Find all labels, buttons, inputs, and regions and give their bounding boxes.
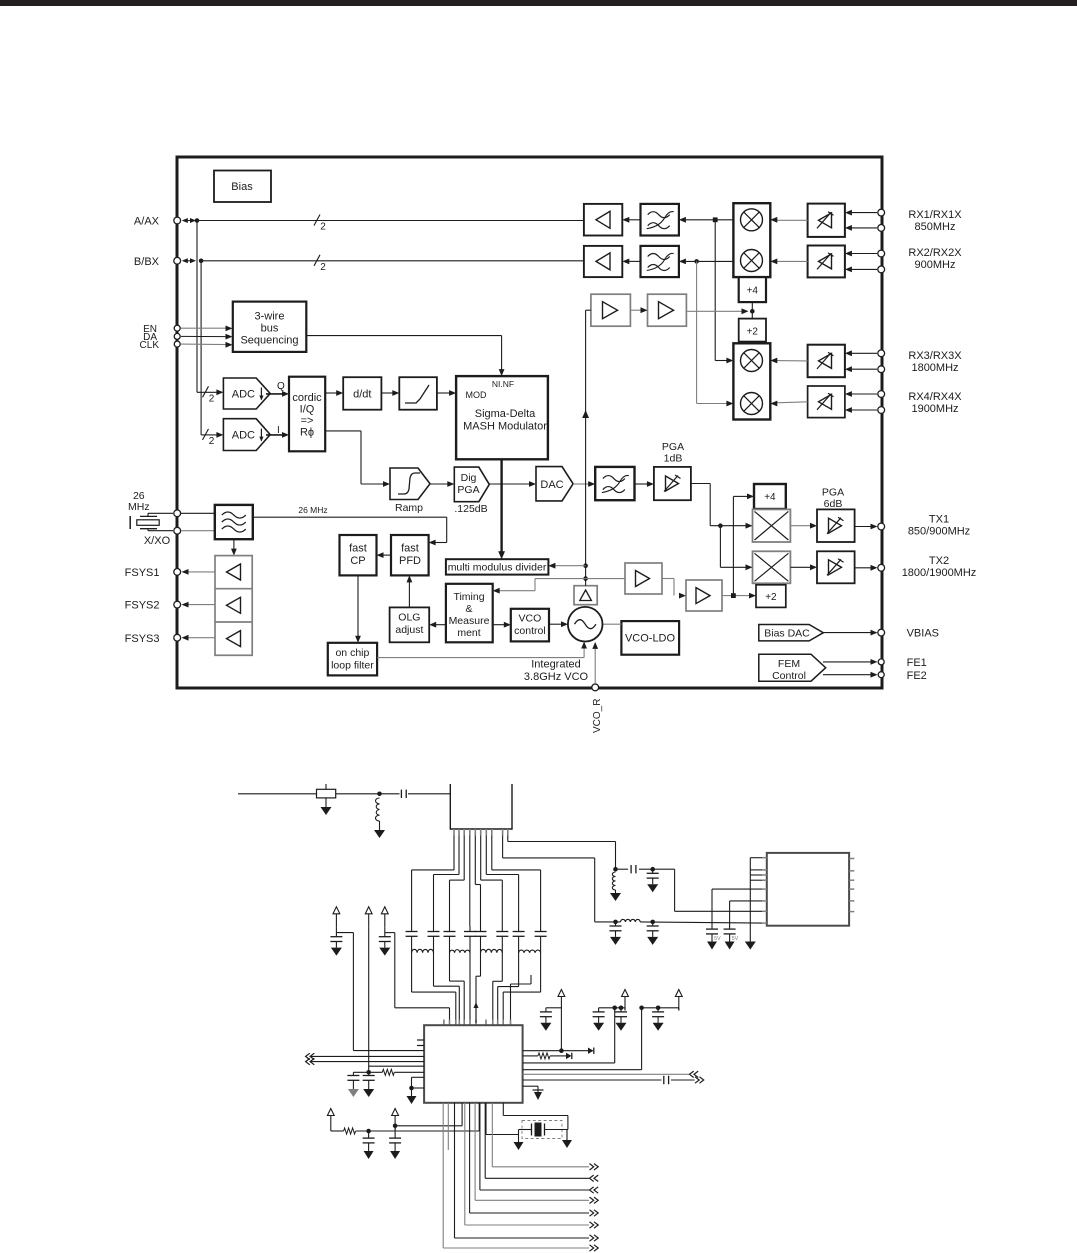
wire FSYS2	[182, 602, 216, 608]
pad B/BX	[134, 256, 181, 268]
label integrated VCO	[524, 659, 589, 684]
wire IC left rx2	[306, 1058, 425, 1064]
block limiter	[399, 377, 437, 410]
ADC I (B path)	[223, 419, 279, 451]
pad FE1	[878, 657, 927, 669]
wire digpga-dac	[489, 481, 536, 487]
pads RX2	[878, 250, 885, 273]
block ref filter	[215, 505, 253, 539]
block Dig PGA	[454, 467, 489, 515]
svg-text:=>: =>	[301, 415, 314, 427]
wire xtal feed	[503, 1103, 568, 1130]
svg-text:RX3/RX3X: RX3/RX3X	[908, 350, 962, 362]
capacitor series C1	[401, 790, 406, 798]
block RF module	[767, 853, 849, 926]
wire limiter-modulator	[437, 390, 456, 396]
wire digital io 3	[480, 1103, 598, 1193]
wire vco dist vertical	[582, 310, 591, 586]
supply B1	[327, 1109, 334, 1132]
wire cordic-d/dt	[325, 390, 343, 396]
wire module-IC link	[511, 975, 532, 1020]
svg-text:FSYS1: FSYS1	[125, 567, 160, 579]
block cordic	[289, 377, 325, 452]
wire vcoctl-vco	[549, 621, 568, 627]
RX filter B	[641, 246, 679, 277]
svg-text:fast: fast	[401, 543, 419, 555]
block Ramp	[390, 468, 430, 514]
ADC Q (A path)	[223, 378, 285, 409]
wire IC right 4	[523, 1008, 642, 1070]
wire lpf-pga	[635, 481, 654, 487]
wire txbuf1-txbuf2	[662, 579, 686, 599]
wire txmix1-pga	[790, 523, 817, 529]
svg-text:3-wire: 3-wire	[255, 311, 285, 323]
wire IC left in3	[369, 1065, 424, 1067]
LNA RX4	[808, 386, 845, 418]
wire digital io 5	[470, 1103, 599, 1216]
svg-text:FSYS3: FSYS3	[125, 633, 160, 645]
svg-text:FE2: FE2	[907, 670, 927, 682]
label RX2	[908, 247, 962, 271]
inductor match L1	[374, 798, 385, 838]
block div2 RX	[739, 319, 766, 342]
wire mixA-filterA	[679, 217, 734, 223]
svg-text:PGA: PGA	[822, 487, 844, 499]
wire filterA-ampA	[622, 217, 640, 223]
svg-text:VCO_R: VCO_R	[592, 699, 603, 733]
svg-text:Ramp: Ramp	[395, 502, 423, 514]
label RX1	[908, 209, 962, 233]
svg-text:1800MHz: 1800MHz	[911, 362, 958, 374]
wire buf2-divnode	[686, 308, 748, 314]
block fast PFD	[391, 535, 429, 575]
svg-text:VCO-LDO: VCO-LDO	[625, 633, 676, 645]
wire IC left res line	[353, 1069, 424, 1075]
pads RX1	[878, 209, 885, 231]
LNA RX2	[808, 246, 845, 278]
wire LNA1 out	[770, 217, 807, 223]
inductors RX match row	[412, 948, 541, 958]
pad DA	[143, 332, 180, 343]
FSYS buffer stack	[215, 556, 252, 656]
wire tap divider	[548, 563, 585, 569]
wire IC right 2	[523, 1053, 572, 1059]
wire 26MHz to PFD	[253, 505, 447, 545]
wire digital io 6	[465, 1103, 598, 1228]
wire digital io 1	[492, 1103, 598, 1170]
svg-text:5V: 5V	[732, 936, 739, 942]
cap b1	[363, 1131, 375, 1159]
pad FSYS3	[125, 633, 181, 645]
svg-text:PGA: PGA	[457, 484, 479, 496]
wire fem-fe1	[823, 659, 878, 665]
IC top pin stubs	[444, 1020, 511, 1026]
svg-text:Rϕ: Rϕ	[300, 427, 314, 439]
svg-text:B/BX: B/BX	[134, 256, 160, 268]
wire digital io 4	[475, 1103, 598, 1204]
svg-text:6dB: 6dB	[824, 498, 843, 510]
wire A to ADC1	[197, 221, 223, 405]
block d/dt	[343, 377, 381, 410]
svg-text:DAC: DAC	[540, 479, 563, 491]
wire LNA3 out	[770, 358, 807, 364]
supply rail 1	[540, 990, 565, 1051]
wire supply3 branch	[379, 933, 450, 1020]
block PGA 1dB	[654, 441, 691, 500]
pad CLK	[140, 340, 181, 351]
svg-text:bus: bus	[261, 323, 279, 335]
svg-text:2: 2	[320, 262, 326, 273]
wire IC left gnd loop	[407, 1077, 425, 1104]
wire IC right rx out	[523, 1071, 699, 1077]
wires front-end fanout	[412, 836, 541, 927]
wire RX1 inputs	[845, 210, 877, 231]
wire filterB-ampB	[622, 259, 640, 265]
wire OLG-PFD	[407, 575, 413, 607]
svg-text:MOD: MOD	[466, 390, 487, 400]
VCO oscillator	[568, 607, 603, 642]
svg-text:26 MHz: 26 MHz	[298, 505, 327, 515]
wire timing-OLG	[429, 622, 446, 628]
svg-text:TX1: TX1	[929, 514, 949, 526]
pads RX3	[878, 350, 885, 373]
block FEM Control	[759, 654, 826, 682]
svg-text:1900MHz: 1900MHz	[911, 403, 958, 415]
svg-text:2: 2	[209, 436, 215, 447]
wire IC left supply	[353, 1050, 424, 1052]
wire IC right tx out	[523, 1076, 704, 1084]
svg-text:FEM: FEM	[778, 658, 800, 670]
block OLG adjust	[390, 607, 430, 642]
TX mixer 2	[753, 551, 791, 583]
wire CP-loopfilter	[355, 575, 361, 642]
supply V2	[365, 907, 372, 1073]
wire RX3 IF join	[715, 220, 733, 364]
RX mixer block low band	[733, 343, 770, 419]
block div4 TX	[754, 484, 786, 509]
wire RX4 inputs	[845, 391, 877, 413]
svg-text:Q: Q	[277, 381, 285, 392]
wire LNA2 out	[770, 259, 807, 265]
LNA RX3	[808, 345, 845, 378]
block Timing Measurement	[446, 584, 493, 643]
wire d/dt-limiter	[381, 390, 399, 396]
svg-text:2: 2	[320, 222, 326, 233]
pad FSYS2	[125, 600, 181, 612]
svg-text:adjust: adjust	[395, 624, 423, 636]
wire tap timing	[493, 579, 586, 594]
wire txbuf2-dividers	[722, 494, 756, 599]
block VCO-LDO	[621, 621, 679, 655]
svg-text:PGA: PGA	[662, 441, 684, 453]
svg-text:MASH Modulator: MASH Modulator	[463, 421, 547, 433]
TX PGA 6dB hi	[817, 487, 855, 543]
wire module en1	[706, 889, 762, 949]
svg-text:Bias DAC: Bias DAC	[764, 628, 810, 640]
label RX3	[908, 350, 962, 374]
wire tap txbuf	[586, 578, 625, 580]
svg-text:I/Q: I/Q	[300, 404, 315, 416]
ground esd	[321, 798, 332, 815]
svg-text:on chip: on chip	[335, 647, 369, 659]
svg-text:+4: +4	[764, 492, 776, 503]
RX filter A	[641, 204, 679, 236]
svg-text:.125dB: .125dB	[454, 503, 487, 515]
LNA RX1	[808, 204, 845, 237]
wire ADC2-cordic	[266, 432, 289, 438]
wire bsupply2	[393, 1103, 462, 1128]
wire digital io 7	[455, 1103, 599, 1241]
wire dac-lpf	[573, 481, 595, 487]
wire supply1 branch	[330, 933, 353, 1051]
svg-text:Measure: Measure	[449, 615, 490, 627]
label 26MHz	[128, 490, 150, 513]
wire IC right 3	[523, 1008, 615, 1063]
top black header bar	[0, 0, 1077, 6]
svg-text:ADC: ADC	[232, 430, 255, 442]
block TX LPF	[595, 467, 634, 500]
wire module ctrl bus	[745, 858, 762, 950]
svg-text:loop filter: loop filter	[331, 660, 374, 672]
wire cordic-ramp	[325, 431, 390, 487]
wire io stub	[447, 1103, 449, 1150]
capacitor series moduleA	[616, 865, 653, 873]
wire modulator-divider	[498, 459, 505, 559]
TX LO buffer 2	[686, 580, 722, 611]
wire txmix2-pga	[790, 564, 817, 570]
gnd xtal left	[514, 1135, 524, 1151]
pad A/AX	[134, 216, 181, 228]
block VCO control	[511, 609, 549, 642]
wire digital io 2	[485, 1103, 598, 1182]
wire timing-vcoctl	[493, 622, 511, 628]
wire digital io 8	[443, 1103, 598, 1251]
svg-text:Integrated: Integrated	[531, 659, 581, 671]
wire TX1 out	[855, 524, 878, 530]
svg-text:1dB: 1dB	[664, 453, 683, 465]
svg-text:2: 2	[209, 393, 215, 404]
svg-text:850MHz: 850MHz	[915, 221, 956, 233]
wire bsupply1	[331, 1103, 479, 1134]
wire A/AX bidir	[182, 215, 584, 233]
pad XTAL1	[174, 510, 181, 517]
svg-text:OLG: OLG	[398, 612, 420, 624]
block 3-wire bus Sequencing	[233, 302, 306, 352]
wire buf1-buf2	[630, 307, 647, 313]
cap IC left	[347, 1072, 359, 1097]
wire fem-fe2	[823, 672, 878, 678]
svg-text:VBIAS: VBIAS	[907, 628, 939, 640]
front-end module pins	[454, 829, 508, 836]
svg-text:d/dt: d/dt	[353, 389, 371, 401]
gnd IC right	[523, 1086, 544, 1100]
block Bias	[214, 171, 271, 203]
cap b2	[389, 1126, 401, 1159]
wire FSYS3	[182, 635, 216, 641]
RX LO buffer 2	[648, 294, 687, 326]
wire ramp-digpga	[430, 481, 454, 487]
RX amp B	[584, 246, 622, 277]
wire antenna line	[238, 792, 450, 797]
capacitors RX match row	[406, 926, 547, 948]
TX LO buffer 1	[625, 563, 662, 594]
wire IC left rx1	[306, 1053, 425, 1059]
wire module vcc line	[595, 919, 762, 924]
block DAC	[536, 467, 573, 501]
svg-text:PFD: PFD	[399, 555, 421, 567]
IC left stub pins	[417, 1040, 424, 1046]
wire EN	[181, 326, 233, 332]
wire IC right 1	[523, 1048, 594, 1054]
svg-text:Control: Control	[772, 670, 806, 682]
pad TX1	[878, 514, 970, 538]
wire CLK	[181, 342, 233, 348]
wire node to module pin	[653, 869, 762, 911]
block front-end module	[450, 784, 512, 829]
module right pins	[849, 859, 854, 912]
cap vcc 2	[647, 922, 659, 945]
pad VBIAS	[878, 628, 939, 640]
wire RX4 IF join	[697, 261, 734, 406]
svg-text:X/XO: X/XO	[144, 535, 171, 547]
block fast CP	[340, 535, 377, 575]
block Sigma-Delta MASH Modulator	[456, 376, 548, 459]
svg-text:Dig: Dig	[461, 472, 477, 484]
svg-text:&: &	[465, 603, 472, 615]
svg-text:5V: 5V	[714, 936, 721, 942]
label RX4	[908, 391, 962, 415]
wire B to ADC2	[201, 261, 223, 447]
supply rail 3	[639, 990, 682, 1031]
pad XTAL2	[174, 527, 181, 534]
supply V3	[381, 907, 388, 933]
wire fe pin9 to module feed	[503, 836, 595, 922]
wire xtal1-filter	[181, 512, 215, 514]
svg-text:TX2: TX2	[929, 555, 949, 567]
svg-text:multi modulus divider: multi modulus divider	[448, 562, 547, 574]
wire ADC1-cordic	[266, 391, 289, 397]
pad VCO_R	[592, 684, 603, 733]
svg-text:ment: ment	[457, 627, 480, 639]
module left pins	[762, 858, 767, 923]
pads RX4	[878, 391, 885, 414]
wire PFD-CP	[377, 552, 392, 558]
svg-text:Timing: Timing	[453, 591, 484, 603]
RX amp A	[584, 204, 622, 236]
svg-text:3.8GHz VCO: 3.8GHz VCO	[524, 671, 589, 683]
wire DA	[181, 334, 233, 340]
block Bias DAC	[759, 625, 824, 641]
svg-text:Sigma-Delta: Sigma-Delta	[475, 408, 536, 420]
wire B/BX bidir	[182, 255, 584, 273]
cap IC left2	[363, 1072, 375, 1097]
block delta modulator	[574, 586, 597, 605]
chip outline box	[177, 157, 882, 688]
TX PGA 6dB lo	[817, 551, 855, 583]
block div4 RX	[739, 277, 766, 302]
wires match to IC	[412, 958, 541, 1020]
component esd filter	[317, 784, 336, 798]
svg-text:control: control	[514, 625, 546, 637]
RX mixer block high band	[733, 203, 770, 277]
pad TX2	[878, 555, 977, 579]
wire to module node A	[610, 867, 621, 901]
svg-text:1800/1900MHz: 1800/1900MHz	[902, 567, 977, 579]
wire module en2	[724, 901, 762, 950]
wire xtal2-filter	[181, 530, 215, 532]
wire VCOR-vco	[592, 642, 598, 684]
wire RX2 inputs	[845, 251, 877, 273]
svg-text:RX4/RX4X: RX4/RX4X	[908, 391, 962, 403]
svg-text:Sequencing: Sequencing	[240, 335, 298, 347]
pad FSYS1	[125, 567, 181, 579]
wire TX2 out	[855, 565, 878, 571]
svg-text:fast: fast	[349, 543, 367, 555]
svg-text:850/900MHz: 850/900MHz	[908, 526, 970, 538]
block div2 TX	[756, 585, 786, 608]
cap vcc 1	[610, 922, 622, 945]
svg-text:VCO: VCO	[519, 613, 542, 625]
svg-text:CP: CP	[350, 555, 365, 567]
svg-text:A/AX: A/AX	[134, 216, 160, 228]
wire 3wire to modulator	[306, 336, 504, 377]
svg-text:+4: +4	[747, 286, 759, 297]
svg-text:Bias: Bias	[231, 181, 253, 193]
wire RX3 inputs	[845, 350, 877, 372]
svg-text:RX1/RX1X: RX1/RX1X	[908, 209, 962, 221]
supply V1	[333, 907, 340, 933]
svg-text:+2: +2	[747, 327, 759, 338]
label X/XO	[144, 535, 171, 547]
crystal 26MHz	[130, 513, 173, 530]
wire filter-fsysbufs	[231, 539, 237, 555]
supply B2	[392, 1109, 399, 1130]
wire fe pin10 to filter node	[508, 836, 616, 870]
block multi modulus divider	[446, 559, 549, 574]
pad EN	[143, 324, 180, 335]
wire mixB-filterB	[679, 259, 734, 265]
svg-text:NI.NF: NI.NF	[492, 379, 514, 389]
crystal Y1	[522, 1121, 568, 1139]
block on chip loop filter	[328, 643, 377, 676]
TX mixer 1	[753, 509, 791, 542]
svg-text:+2: +2	[765, 592, 777, 603]
pad FE2	[878, 670, 927, 682]
wire biasdac-vbias	[823, 630, 877, 636]
svg-text:RX2/RX2X: RX2/RX2X	[908, 247, 962, 259]
wire xtal left	[486, 1103, 531, 1135]
wire div4-div2 node	[750, 302, 755, 319]
block main IC	[424, 1025, 522, 1103]
wire LNA4 out	[770, 401, 807, 407]
gnd xtal right	[562, 1130, 572, 1149]
svg-text:900MHz: 900MHz	[915, 259, 956, 271]
svg-text:cordic: cordic	[292, 392, 322, 404]
supply rail 2	[593, 990, 629, 1031]
wire FSYS1	[182, 569, 216, 575]
arrow RF detect	[474, 1002, 479, 1023]
svg-text:FE1: FE1	[907, 657, 927, 669]
wire pga1-txmixers	[691, 484, 753, 571]
wire vco-ldo	[603, 623, 622, 625]
svg-text:CLK: CLK	[140, 340, 160, 351]
RX LO buffer 1	[591, 294, 631, 326]
wire loopfilter-vco	[377, 642, 587, 658]
svg-text:FSYS2: FSYS2	[125, 600, 160, 612]
cap shunt moduleB	[647, 867, 659, 892]
svg-text:MHz: MHz	[128, 501, 150, 513]
svg-text:ADC: ADC	[232, 389, 255, 401]
